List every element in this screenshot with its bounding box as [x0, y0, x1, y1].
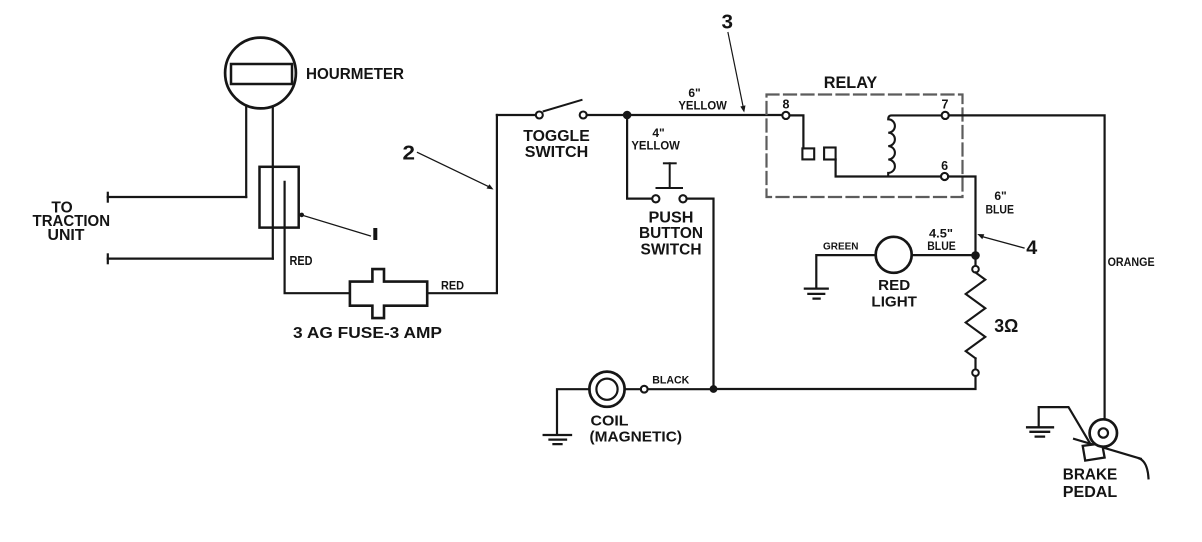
svg-text:RED: RED: [290, 254, 313, 268]
svg-text:RED: RED: [878, 277, 910, 294]
wire fuse to toggle riser: [427, 115, 497, 293]
svg-text:BLUE: BLUE: [927, 239, 956, 253]
brake pedal pad: [1083, 443, 1105, 460]
toggle switch lever: [544, 100, 582, 111]
wire contact to pin6 rail: [836, 160, 941, 177]
brake pedal label: [1063, 467, 1118, 501]
resistor top terminal: [972, 266, 979, 273]
brake pedal roller hub: [1099, 428, 1108, 437]
junction node C: [710, 385, 718, 393]
toggle switch contact left: [536, 112, 543, 119]
svg-text:HOURMETER: HOURMETER: [306, 66, 404, 83]
wire pin8 to contact: [790, 115, 804, 148]
junction node B: [971, 251, 980, 260]
svg-text:SWITCH: SWITCH: [525, 144, 589, 161]
relay pin 7: [942, 112, 949, 119]
coil label: [590, 412, 683, 445]
wire coil ground lead: [557, 389, 590, 433]
label 6in BLUE: [985, 189, 1014, 216]
pointer 3 line: [728, 33, 743, 106]
ground (coil): [544, 435, 571, 444]
svg-text:3 AG FUSE-3 AMP: 3 AG FUSE-3 AMP: [293, 325, 442, 342]
brake pedal arm: [1074, 439, 1141, 459]
pointer 2 line: [418, 153, 490, 188]
ground (red light): [805, 289, 828, 299]
svg-text:RED: RED: [441, 280, 464, 292]
wire coil to terminal: [625, 388, 641, 390]
push button bridge bar: [657, 187, 683, 189]
label 4in YELLOW: [631, 126, 680, 152]
pointer 3 arrowhead: [740, 105, 745, 112]
svg-text:BRAKE: BRAKE: [1063, 467, 1118, 484]
svg-text:YELLOW: YELLOW: [678, 98, 727, 112]
svg-text:UNIT: UNIT: [48, 227, 86, 244]
pointer 4 arrowhead: [977, 234, 984, 239]
brake pedal arm hook: [1139, 458, 1149, 478]
svg-text:2: 2: [403, 141, 416, 164]
svg-text:3: 3: [722, 11, 734, 33]
resistor bottom terminal: [972, 369, 979, 376]
wire hourmeter left lead: [245, 107, 247, 198]
svg-text:ORANGE: ORANGE: [1108, 257, 1155, 269]
relay moving contact square: [824, 148, 836, 160]
wire toggle to junction: [587, 114, 627, 116]
resistor R1 3ohm zigzag: [966, 273, 986, 359]
relay pin 6: [941, 173, 948, 180]
wire resistor to black rail: [718, 376, 976, 389]
svg-text:6: 6: [941, 159, 948, 173]
wire fuse feed: [285, 182, 350, 293]
brake pedal roller: [1090, 419, 1117, 446]
toggle switch contact right: [580, 112, 587, 119]
red light label: [871, 277, 917, 311]
label 6in YELLOW: [678, 86, 727, 113]
wire coil terminal to junction: [648, 388, 714, 390]
wire traction bottom: [108, 258, 273, 260]
label 1: [373, 228, 377, 240]
fuse holder box (item 1): [260, 167, 299, 228]
svg-text:SWITCH: SWITCH: [641, 242, 702, 259]
svg-text:7: 7: [942, 98, 949, 112]
hourmeter body: [225, 38, 296, 109]
svg-text:RELAY: RELAY: [824, 74, 878, 92]
svg-text:8: 8: [783, 98, 790, 112]
junction node A: [623, 111, 632, 120]
hourmeter window: [231, 64, 292, 84]
svg-text:TOGGLE: TOGGLE: [523, 128, 590, 145]
svg-text:LIGHT: LIGHT: [871, 293, 917, 310]
coil magnetic outer: [589, 372, 624, 407]
wire green lead: [816, 255, 876, 286]
label 4.5in BLUE: [927, 226, 956, 253]
toggle switch label: [523, 128, 590, 161]
svg-text:(MAGNETIC): (MAGNETIC): [590, 429, 683, 446]
ground (brake pedal): [1027, 427, 1053, 436]
wire riser to toggle: [497, 114, 536, 116]
pointer 2 arrowhead: [487, 184, 494, 189]
relay coil winding: [888, 115, 941, 176]
svg-text:BUTTON: BUTTON: [639, 225, 703, 242]
pointer 1 line: [302, 215, 370, 236]
svg-text:4: 4: [1026, 238, 1037, 259]
resistor R1 top lead: [974, 255, 976, 266]
wire hourmeter right lead: [272, 107, 274, 259]
red light lamp: [876, 237, 912, 273]
coil magnetic inner: [596, 379, 617, 400]
brake pedal ground lead: [1039, 407, 1091, 445]
pointer 1 arrow dot: [299, 213, 304, 218]
wire junction to relay pin8: [627, 114, 782, 116]
relay fixed contact square: [802, 148, 814, 159]
push button contact right: [679, 195, 686, 202]
svg-text:GREEN: GREEN: [823, 241, 859, 253]
wire junction down to push button: [627, 115, 652, 199]
svg-text:6": 6": [994, 189, 1006, 203]
push button cap: [664, 162, 676, 164]
relay K1 dashed enclosure: [767, 95, 963, 198]
svg-text:COIL: COIL: [591, 412, 629, 429]
pointer 4 line: [982, 237, 1024, 249]
relay pin 8: [782, 112, 789, 119]
terminal tick bottom: [107, 254, 109, 263]
svg-text:PUSH: PUSH: [649, 210, 694, 227]
wire pin7 to orange riser: [949, 115, 1105, 418]
svg-text:BLUE: BLUE: [985, 202, 1014, 216]
coil terminal: [641, 386, 648, 393]
terminal tick top: [107, 193, 109, 202]
wire traction top: [108, 196, 246, 198]
push button switch label: [639, 210, 703, 259]
wire pin6 to blue riser: [948, 177, 975, 252]
push button contact left: [652, 195, 659, 202]
wire push button to coil riser: [687, 199, 714, 389]
svg-text:YELLOW: YELLOW: [631, 138, 680, 152]
svg-text:3Ω: 3Ω: [994, 316, 1018, 336]
wire red light to junction: [912, 254, 972, 256]
svg-text:BLACK: BLACK: [652, 375, 689, 387]
svg-text:PEDAL: PEDAL: [1063, 484, 1118, 501]
push button stem: [669, 163, 671, 188]
resistor bottom lead: [974, 358, 976, 369]
fuse F1 body: [350, 269, 427, 318]
label TO TRACTION UNIT: [33, 200, 111, 245]
